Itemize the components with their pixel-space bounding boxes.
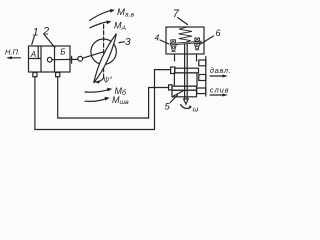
svg-text:ψ°: ψ°: [104, 75, 112, 84]
moment arrow Мав: [90, 10, 114, 20]
port flange left lower: [169, 85, 172, 90]
angle arc ψ: [96, 78, 104, 82]
cylinder body 1: [29, 46, 71, 72]
sleeve neck left: [174, 54, 176, 61]
leader 1: [32, 36, 35, 44]
svg-text:слив: слив: [210, 85, 230, 94]
plunger 6 cap: [195, 38, 200, 41]
land 1: [175, 68, 199, 73]
piston wall right: [54, 46, 56, 72]
svg-text:3: 3: [125, 37, 131, 48]
spool middle section: [174, 73, 197, 86]
svg-text:4: 4: [155, 33, 160, 43]
chamber A inner corner: [29, 46, 42, 59]
pipe A outer run: [35, 70, 171, 130]
manifold stub upper: [199, 60, 206, 66]
leader 3: [119, 41, 125, 44]
cylinder port stub B: [56, 73, 60, 77]
pipe B inner run: [58, 77, 169, 118]
leader 6: [201, 36, 214, 44]
valve housing box: [166, 27, 204, 54]
cylinder port stub A: [33, 73, 37, 77]
bottom gland: [172, 90, 197, 97]
piston wall left: [40, 46, 42, 72]
spool stem: [185, 44, 188, 99]
arrow слив: [210, 94, 225, 96]
moment arrow Ма: [90, 22, 110, 28]
land 3: [172, 86, 197, 90]
rod flange tick: [71, 56, 73, 63]
spool tip: [184, 99, 189, 104]
link to disc: [83, 52, 104, 58]
rocker beam: [171, 41, 202, 45]
svg-text:6: 6: [216, 28, 221, 38]
rudder stock disc: [91, 39, 116, 64]
leader 2: [45, 35, 55, 48]
plunger 4 cone: [171, 45, 176, 50]
svg-text:Б: Б: [60, 48, 65, 57]
manifold vertical: [205, 57, 207, 97]
svg-text:Н.П.: Н.П.: [5, 48, 20, 57]
svg-text:ω: ω: [193, 105, 199, 114]
disc axis dashed: [103, 25, 105, 79]
plunger 4 cap: [171, 40, 176, 43]
pressure port bracket: [199, 75, 206, 81]
leader 4: [160, 40, 169, 44]
port flange left upper: [171, 67, 175, 74]
svg-text:давл.: давл.: [210, 66, 232, 75]
piston pivot circle: [47, 57, 52, 62]
arrow давл: [210, 75, 225, 77]
spring 7: [179, 27, 193, 42]
moment arrow Мб: [85, 89, 110, 92]
arrow Н.П.: [8, 57, 21, 59]
gland diagonal: [172, 90, 184, 96]
leader 5: [170, 95, 177, 103]
plunger 6 cone: [194, 43, 199, 48]
rudder blade 3: [94, 34, 117, 83]
piston rod: [52, 58, 78, 60]
sleeve neck right: [196, 54, 198, 61]
svg-text:А: А: [30, 50, 36, 59]
drain port bracket: [197, 88, 206, 94]
leader 7: [178, 18, 188, 25]
omega arrow: [181, 105, 191, 109]
svg-text:1: 1: [33, 27, 39, 39]
moment arrow Мшв: [85, 98, 108, 101]
pivot joint circle: [78, 56, 83, 61]
svg-text:5: 5: [165, 102, 171, 113]
